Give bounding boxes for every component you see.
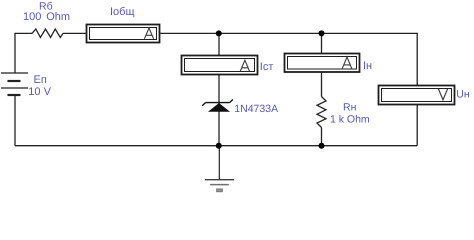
svg-text:Rн: Rн — [343, 102, 357, 114]
svg-text:Uн: Uн — [456, 89, 470, 101]
svg-text:100: 100 — [23, 11, 41, 23]
svg-text:Еп: Еп — [34, 74, 47, 86]
svg-text:1 k Ohm: 1 k Ohm — [330, 113, 370, 125]
svg-text:10 V: 10 V — [28, 86, 51, 98]
svg-text:Iобщ: Iобщ — [110, 6, 135, 18]
svg-text:Iст: Iст — [260, 61, 274, 73]
svg-text:1N4733A: 1N4733A — [234, 103, 278, 115]
svg-text:Iн: Iн — [363, 60, 372, 72]
svg-text:Ohm: Ohm — [46, 11, 70, 23]
